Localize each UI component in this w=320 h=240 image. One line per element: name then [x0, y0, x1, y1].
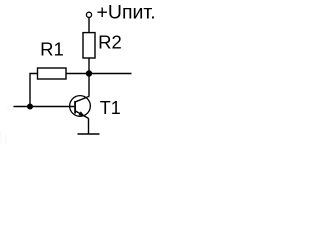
wire output to the right [89, 73, 132, 75]
power terminal +Uпит [86, 12, 91, 17]
wire R2 to node A [88, 58, 90, 74]
transistor T1 base bar [74, 101, 76, 114]
transistor T1 emitter arrowhead [79, 111, 85, 116]
node A junction dot [86, 70, 92, 76]
transistor T1 body circle [70, 96, 91, 117]
wire emitter down [88, 118, 90, 134]
resistor R2 [83, 33, 95, 58]
svg-text:T1: T1 [100, 98, 121, 118]
wire R1 right lead to node A [66, 73, 89, 75]
ground rail segment [78, 133, 100, 135]
faint crop remnants bottom-left [0, 131, 1, 144]
wire input to base [14, 106, 75, 108]
svg-text:R2: R2 [98, 32, 122, 53]
transistor T1 collector stroke [76, 96, 90, 101]
wire node A to collector [88, 74, 90, 97]
wire terminal to R2 [88, 17, 90, 33]
resistor R1 [38, 68, 67, 79]
svg-text:+Uпит.: +Uпит. [97, 1, 156, 23]
svg-text:R1: R1 [40, 39, 64, 60]
input terminal (faint) [8, 105, 13, 110]
transistor T1 emitter stroke [76, 111, 89, 118]
wire R1 left lead [30, 74, 38, 107]
node B junction dot [27, 104, 33, 110]
